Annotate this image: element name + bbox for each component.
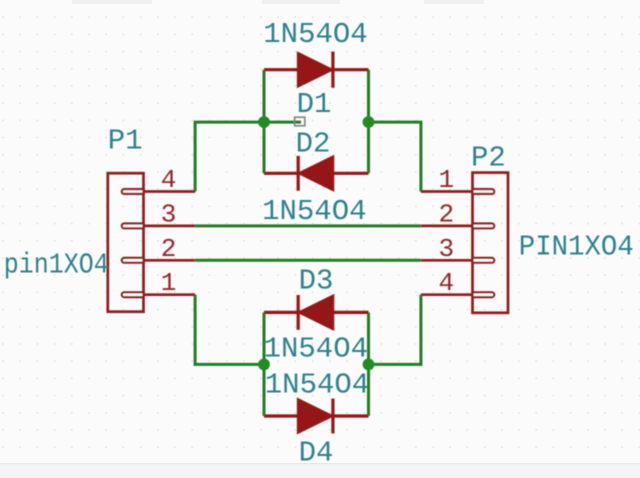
svg-text:1: 1 — [161, 268, 177, 298]
diode D4 — [264, 399, 369, 434]
wire P1 pin4 to left top junction — [195, 122, 264, 191]
svg-text:P1: P1 — [108, 125, 143, 158]
bottom separator line — [0, 463, 640, 464]
wire P1 pin3 to P2 pin2 — [195, 224, 421, 227]
svg-text:P2: P2 — [471, 142, 506, 175]
svg-text:D3: D3 — [299, 265, 334, 298]
wire right vertical D3-D4 — [367, 312, 370, 416]
svg-text:PIN1XO4: PIN1XO4 — [519, 230, 634, 263]
svg-text:1N54O4: 1N54O4 — [263, 18, 367, 51]
P1 pin 1 — [122, 292, 195, 297]
diode D1 — [264, 52, 369, 88]
svg-text:4: 4 — [161, 165, 177, 195]
svg-text:4: 4 — [438, 268, 454, 298]
svg-text:2: 2 — [438, 199, 454, 229]
diode D2 — [264, 156, 369, 191]
svg-text:3: 3 — [438, 234, 454, 264]
svg-text:1: 1 — [438, 165, 454, 195]
svg-text:D2: D2 — [296, 128, 331, 161]
junction top-left — [258, 116, 270, 128]
unconnected wire-end square — [295, 117, 305, 126]
junction bottom-left — [258, 359, 270, 371]
svg-text:2: 2 — [161, 234, 177, 264]
P2 pin 4 — [421, 292, 494, 297]
svg-text:3: 3 — [161, 199, 177, 229]
P1 pin 3 — [122, 224, 195, 229]
wire stub to unconnected square — [264, 121, 301, 124]
svg-text:1N54O4: 1N54O4 — [264, 332, 368, 365]
diode D3 — [264, 295, 369, 330]
P2 pin 3 — [421, 258, 494, 263]
connector P2 body — [473, 173, 509, 313]
top faint artifacts — [72, 0, 152, 4]
junction top-right — [363, 116, 375, 128]
wire P1 pin2 to P2 pin3 — [195, 259, 421, 262]
svg-text:pin1XO4: pin1XO4 — [4, 249, 109, 282]
svg-text:1N54O4: 1N54O4 — [265, 369, 369, 402]
P1 pin 2 — [122, 258, 195, 263]
connector P1 body — [108, 173, 144, 312]
wire left vertical D1-D2 — [263, 70, 266, 174]
wire right vertical D1-D2 — [367, 70, 370, 174]
P1 pin 4 — [122, 189, 195, 194]
P2 pin 2 — [421, 224, 494, 229]
P2 pin 1 — [421, 189, 494, 194]
wire left vertical D3-D4 — [263, 312, 266, 416]
svg-text:1N54O4: 1N54O4 — [262, 195, 366, 228]
wire right top junction to P2 pin1 — [369, 122, 421, 191]
junction bottom-right — [363, 359, 375, 371]
wire right bottom junction to P2 pin4 — [369, 295, 421, 365]
svg-text:D1: D1 — [297, 88, 332, 121]
wire P1 pin1 to left bottom junction — [195, 295, 264, 365]
